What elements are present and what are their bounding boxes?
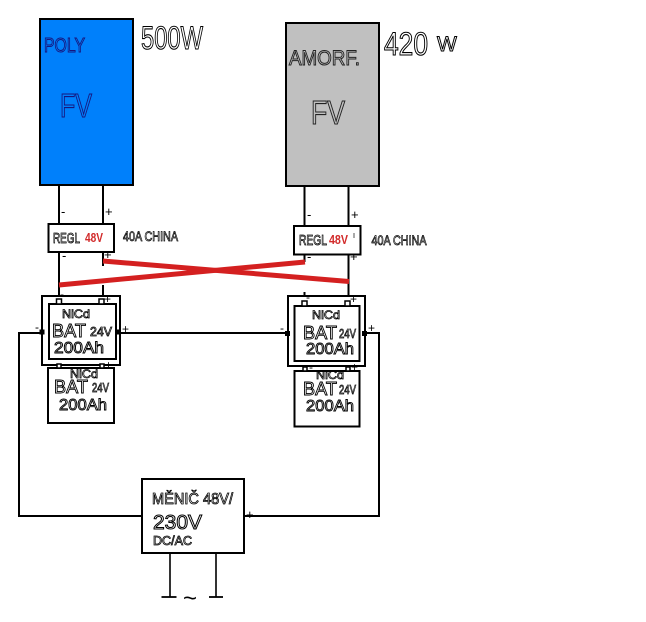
svg-text:+: + [350, 292, 357, 306]
battery B4 (NiCd BAT 24V 200Ah) [295, 360, 360, 427]
svg-text:-: - [306, 290, 310, 304]
svg-text:-: - [35, 320, 39, 334]
svg-text:40A CHINA: 40A CHINA [372, 232, 428, 248]
battery B3 (NiCd BAT 24V 200Ah) [288, 290, 365, 366]
svg-text:-: - [307, 207, 311, 222]
wire left return (B1- to inverter -) [19, 333, 142, 516]
wire PV2 positive [349, 187, 359, 227]
svg-text:48V: 48V [85, 230, 103, 245]
svg-text:BAT: BAT [303, 323, 337, 343]
regulator U1 (REGL 48V) [49, 224, 115, 252]
svg-text:NiCd: NiCd [62, 307, 90, 321]
svg-text:+: + [246, 507, 254, 522]
wire PV1 positive [103, 185, 113, 225]
svg-text:FV: FV [311, 94, 345, 131]
U1 output terminal labels [62, 247, 112, 263]
solar panel PV2 (AMORF) [286, 23, 379, 186]
svg-text:BAT: BAT [303, 379, 337, 399]
svg-text:24V: 24V [339, 326, 356, 341]
junction B1 negative terminal [35, 320, 45, 335]
svg-text:DC/AC: DC/AC [153, 533, 192, 548]
battery B1 (NiCd BAT 24V 200Ah) [42, 287, 120, 365]
svg-text:+: + [104, 292, 111, 306]
red crossover wire B [59, 262, 305, 285]
svg-text:AMORF.: AMORF. [289, 47, 360, 70]
svg-text:40A CHINA: 40A CHINA [123, 228, 179, 244]
svg-text:-: - [61, 204, 65, 219]
svg-text:-: - [63, 357, 67, 371]
svg-text:-: - [307, 249, 311, 264]
junction B1 positive terminal [116, 322, 129, 336]
svg-text:~: ~ [183, 585, 197, 612]
svg-text:REGL: REGL [299, 232, 327, 249]
wire right positive (B3+ to inverter +) [244, 333, 379, 516]
svg-text:+: + [350, 249, 358, 264]
wire U1 minus to B1 [58, 252, 60, 303]
svg-text:BAT: BAT [54, 377, 88, 397]
svg-text:-: - [60, 287, 64, 301]
svg-text:200Ah: 200Ah [306, 341, 354, 358]
svg-text:200Ah: 200Ah [54, 340, 104, 357]
svg-text:NiCd: NiCd [312, 308, 340, 322]
wire to B1 plus [102, 285, 104, 303]
svg-text:48V: 48V [329, 232, 348, 247]
svg-text:POLY: POLY [44, 35, 85, 57]
svg-text:BAT: BAT [52, 321, 86, 341]
regulator U2 (REGL 48V) [294, 226, 361, 255]
svg-text:230V: 230V [153, 512, 203, 534]
wire PV1 negative [59, 185, 65, 225]
svg-text:420: 420 [384, 26, 428, 62]
svg-text:-: - [62, 248, 66, 263]
svg-text:W: W [437, 33, 457, 56]
AC output wire right [209, 553, 223, 597]
junction B3 positive terminal [362, 321, 375, 336]
svg-text:500W: 500W [141, 20, 204, 56]
svg-text:200Ah: 200Ah [59, 397, 107, 414]
svg-text:+: + [105, 358, 112, 372]
wire U2 plus to B3 [348, 254, 350, 306]
svg-text:REGL: REGL [53, 230, 80, 247]
svg-text:-: - [131, 508, 135, 523]
solar panel PV1 (POLY) [40, 19, 133, 185]
svg-text:+: + [351, 360, 358, 374]
svg-text:24V: 24V [92, 380, 109, 395]
svg-text:+: + [105, 204, 113, 219]
red crossover wire A [103, 261, 349, 282]
inverter U3 (MENIC 48V/230V DC/AC) [142, 479, 244, 553]
svg-text:24V: 24V [339, 382, 356, 397]
svg-text:FV: FV [60, 87, 92, 124]
svg-text:-: - [309, 360, 313, 374]
junction B3 negative terminal [280, 321, 290, 336]
svg-text:MĚNIČ 48V/: MĚNIČ 48V/ [152, 489, 233, 508]
battery B2 (NiCd BAT 24V 200Ah) [48, 357, 114, 423]
svg-text:24V: 24V [90, 324, 112, 339]
svg-text:200Ah: 200Ah [306, 398, 354, 415]
AC output wire left [162, 553, 177, 597]
wire U1 plus stub [102, 252, 104, 266]
wire bus link B1+ to B3- [121, 332, 285, 334]
wire U2 minus stub [304, 254, 306, 262]
wire PV2 negative [305, 187, 312, 227]
inverter input terminal labels [131, 507, 254, 523]
svg-text:+: + [351, 207, 359, 222]
wire to B3 minus [304, 292, 306, 305]
label 420 W [384, 26, 457, 62]
U2 output terminal labels [307, 249, 358, 264]
